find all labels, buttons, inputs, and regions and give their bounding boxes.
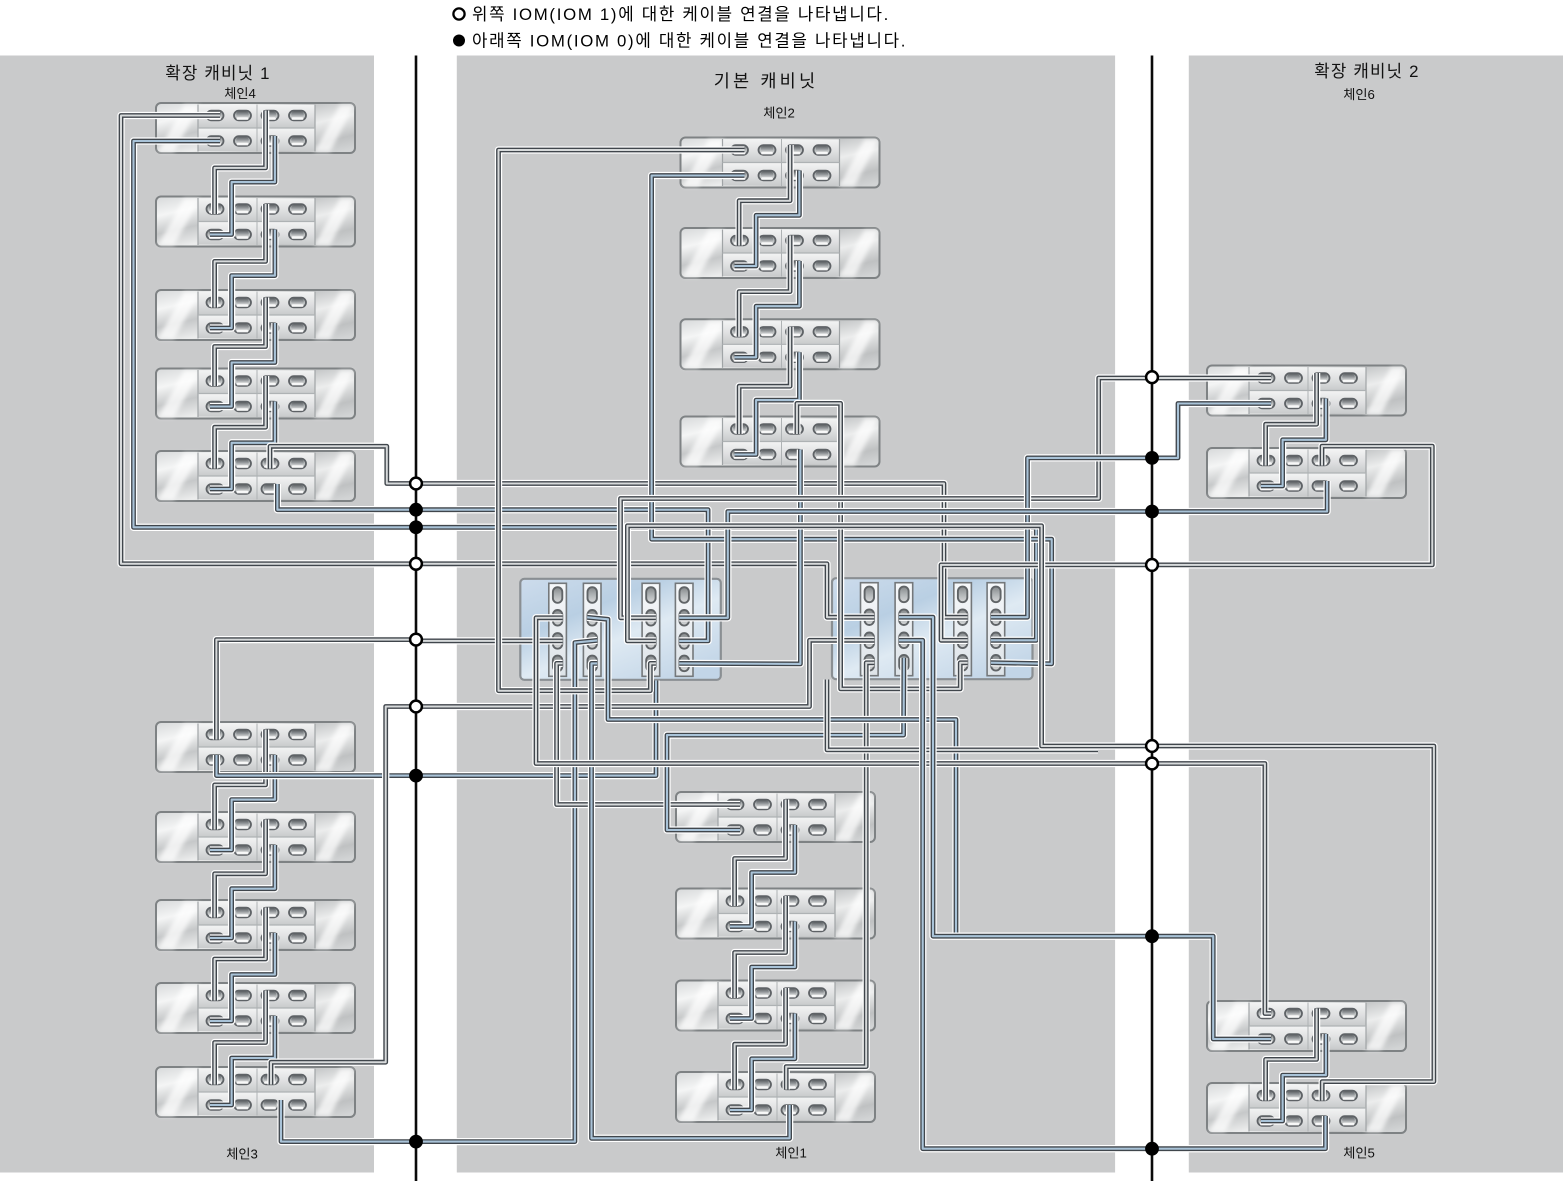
svg-text:체인4: 체인4 <box>224 86 256 101</box>
wire: D2 L5.t.p3 - ctrl2.s3.p2 <box>270 446 968 617</box>
svg-text:아래쪽 IOM(IOM 0)에 대한 케이블 연결을 나타냅: 아래쪽 IOM(IOM 0)에 대한 케이블 연결을 나타냅니다. <box>472 32 907 51</box>
wire: cascade blue L6-L7 <box>210 755 275 850</box>
wire: cascade dark M1-M2 <box>739 145 790 246</box>
disk shelf R1 <box>1207 366 1406 416</box>
wire: cascade blue M5-M6 <box>730 825 795 927</box>
wire: cascade dark L7-L8 <box>215 820 266 918</box>
svg-text:체인1: 체인1 <box>775 1146 807 1161</box>
disk shelf L5 <box>156 451 355 501</box>
wire: cascade blue L3-L4 <box>210 323 275 407</box>
wire: D7 M5.t.p1 - ctrl1.s1.p4 <box>557 663 740 804</box>
svg-text:체인3: 체인3 <box>226 1147 258 1162</box>
wire: B9 R1.b.p1 - ctrl2.s4.p2 <box>991 404 1271 618</box>
wire: cascade blue L2-L3 <box>210 230 275 329</box>
wire: cascade dark L2-L3 <box>215 204 266 308</box>
cabinet boundary line (right) <box>1151 56 1154 1182</box>
svg-text:위쪽 IOM(IOM 1)에 대한 케이블 연결을 나타냅니: 위쪽 IOM(IOM 1)에 대한 케이블 연결을 나타냅니다. <box>472 5 890 24</box>
junction dot IOM0 (filled) at 416,509 <box>409 503 423 517</box>
junction dot IOM1 (open) at 1152,377 <box>1146 371 1158 383</box>
wire: D8 M8.t.p3 - ctrl2.s1.p4 <box>786 663 874 1090</box>
svg-text:기본 캐비닛: 기본 캐비닛 <box>714 71 819 91</box>
disk shelf M8 <box>676 1072 875 1122</box>
disk shelf R2 <box>1207 448 1406 498</box>
disk shelf L7 <box>156 812 355 862</box>
disk shelf M7 <box>676 981 875 1031</box>
wire: D1 L1.t.p1 - ctrl2.s1.p2 <box>121 116 874 618</box>
wire: cascade blue M2-M3 <box>735 261 800 357</box>
disk shelf L6 <box>156 722 355 772</box>
wire: D3 L6.t.p1 - ctrl1.s1.p3 <box>216 640 562 740</box>
disk shelf M4 <box>681 417 880 467</box>
wire: cascade dark L6-L7 <box>215 730 266 830</box>
svg-text:확장 캐비닛 2: 확장 캐비닛 2 <box>1314 62 1419 81</box>
wire: B1 L1.b.p1 - ctrl2.s4.p3 <box>134 141 1037 640</box>
disk shelf M6 <box>676 889 875 939</box>
wire: D4 L10.t.p3 - ctrl2.s1.p3 <box>271 640 874 1084</box>
disk shelf L4 <box>156 369 355 419</box>
wire: cascade dark L9-L10 <box>215 991 266 1085</box>
wire: B13 ctrl1.s2.p2 - lower right run <box>587 617 956 934</box>
wire: B6 M4.b.p3 - ctrl1.s4.p4 <box>679 450 800 664</box>
disk shelf M5 <box>676 792 875 842</box>
wire: cascade blue M1-M2 <box>735 171 800 267</box>
disk shelf M1 <box>681 138 880 188</box>
wire: cascade dark R3-R4 <box>1266 1009 1317 1101</box>
wire: cascade blue M3-M4 <box>735 352 800 454</box>
disk shelf R4 <box>1207 1083 1406 1133</box>
wire: B8 M8.b.p3 - ctrl1.s2.p4 <box>592 663 790 1138</box>
wire: cascade blue L7-L8 <box>210 845 275 938</box>
wire: D6 M4.t.p3 - ctrl2.s3.p4 <box>797 403 968 689</box>
wire: D11 R3.t.p1 - ctrl1.s1.p2 <box>536 618 1271 1014</box>
controller C2 <box>832 578 1033 679</box>
wire: B5 M1.b.p1 - ctrl2.s4.p4 <box>652 176 1052 664</box>
wire: X2 dark run right of ctrl2 <box>827 680 1098 750</box>
wire: D5 M1.t.p1 - ctrl1.s3.p4 <box>499 150 745 691</box>
wire: B2 L5.b.p3 - ctrl1.s4.p3 <box>277 484 708 641</box>
wire: B10 R2.b.p3 - ctrl1.s4.p2 <box>679 481 1327 618</box>
disk shelf L9 <box>156 983 355 1033</box>
junction dot IOM1 (open) at 416,639 <box>410 634 422 646</box>
junction dot IOM1 (open) at 416,706 <box>410 701 422 713</box>
junction dot IOM1 (open) at 1152,763 <box>1146 758 1158 770</box>
wire: cascade dark M3-M4 <box>739 327 790 434</box>
wire: cascade dark M2-M3 <box>739 236 790 337</box>
wire: B11 R3.b.p1 - ctrl2.s2.p2 <box>899 617 1271 1039</box>
cabinet boundary line (left) <box>415 56 418 1182</box>
wire: cascade blue L9-L10 <box>210 1016 275 1105</box>
disk shelf L8 <box>156 900 355 950</box>
wire: cascade blue R1-R2 <box>1261 399 1326 487</box>
disk shelf L3 <box>156 290 355 340</box>
wire: B3 L6.b.p1 - east run <box>217 681 657 776</box>
disk shelf M3 <box>681 319 880 369</box>
disk shelf L1 <box>156 103 355 153</box>
wire: cascade blue L1-L2 <box>210 136 275 235</box>
wire: cascade blue R3-R4 <box>1261 1034 1326 1121</box>
legend: IOM1 (open circle) <box>453 5 890 24</box>
junction dot IOM1 (open) at 416,483 <box>410 478 422 490</box>
junction dot IOM1 (open) at 416,563 <box>410 558 422 570</box>
wire: cascade dark L8-L9 <box>215 908 266 1001</box>
disk shelf L2 <box>156 197 355 247</box>
wire: cascade dark L1-L2 <box>215 111 266 215</box>
wire: cascade dark L3-L4 <box>215 298 266 387</box>
svg-text:확장 캐비닛 1: 확장 캐비닛 1 <box>165 64 270 83</box>
svg-text:체인6: 체인6 <box>1343 87 1375 102</box>
cabinet panel: base cabinet <box>457 56 1115 1173</box>
disk shelf L10 <box>156 1067 355 1117</box>
junction dot IOM1 (open) at 1152,746 <box>1146 740 1158 752</box>
wire: cascade dark L4-L5 <box>215 376 266 469</box>
wire: cascade dark M6-M7 <box>735 896 786 998</box>
junction dot IOM0 (filled) at 416,1141 <box>409 1135 423 1149</box>
disk shelf M2 <box>681 228 880 278</box>
wire: cascade dark M5-M6 <box>735 800 786 907</box>
svg-text:체인5: 체인5 <box>1343 1146 1375 1161</box>
junction dot IOM1 (open) at 1152,564 <box>1146 559 1158 571</box>
junction dot IOM0 (filled) at 1152,936 <box>1145 929 1159 943</box>
wire: B12 R4.b.p3 - ctrl2.s2.p3 <box>899 640 1326 1148</box>
wire: D10 R2.t.p3 - ctrl2.s3.p3 <box>941 446 1432 640</box>
wire: cascade blue M7-M8 <box>730 1014 795 1111</box>
cabinet panel: expansion cabinet 1 <box>0 56 374 1173</box>
wire: cascade blue M6-M7 <box>730 922 795 1019</box>
wire: cascade dark R1-R2 <box>1266 373 1317 466</box>
wire: cascade blue L8-L9 <box>210 933 275 1021</box>
wire: B7 M5.b.p1 - ctrl2.s2.p4 <box>667 658 904 830</box>
junction dot IOM0 (filled) at 1152,1148 <box>1145 1142 1159 1156</box>
wire: D12 R4.t.p3 - ctrl1.s3.p3 <box>627 526 1434 1101</box>
svg-text:체인2: 체인2 <box>763 106 795 121</box>
disk shelf R3 <box>1207 1001 1406 1051</box>
wire: D9 R1.t.p1 - ctrl1.s3.p2 <box>621 378 1272 618</box>
cabinet panel: expansion cabinet 2 <box>1189 56 1563 1173</box>
junction dot IOM0 (filled) at 416,527 <box>409 520 423 534</box>
legend: IOM0 (filled circle) <box>453 32 907 51</box>
junction dot IOM0 (filled) at 1152,457 <box>1145 451 1159 465</box>
junction dot IOM0 (filled) at 416,775 <box>409 769 423 783</box>
wire: B4 L10.b.p3 - ctrl1.s2.p3 <box>281 640 597 1141</box>
controller C1 <box>520 579 721 680</box>
junction dot IOM0 (filled) at 1152,511 <box>1145 505 1159 519</box>
wire: cascade blue L4-L5 <box>210 402 275 490</box>
wire: cascade dark M7-M8 <box>735 988 786 1090</box>
